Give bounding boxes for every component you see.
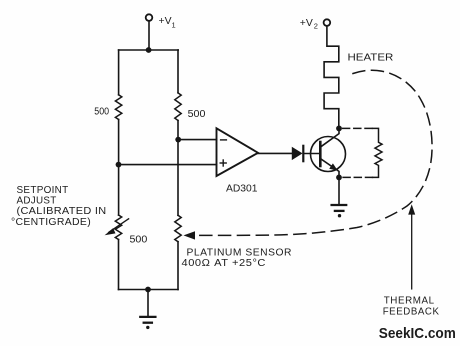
resistor load right <box>373 128 383 177</box>
ground emitter <box>332 205 347 217</box>
node top junction <box>146 47 152 53</box>
node plus-input junction <box>116 162 122 168</box>
wire to op-amp plus input <box>119 164 217 166</box>
svg-text:400Ω AT +25°C: 400Ω AT +25°C <box>182 258 267 269</box>
wire bottom rail <box>119 289 179 291</box>
svg-text:HEATER: HEATER <box>348 52 394 63</box>
svg-text:FEEDBACK: FEEDBACK <box>383 306 440 317</box>
wire left branch middle <box>118 120 120 216</box>
wire V1 stem <box>148 21 150 50</box>
label setpoint adjust <box>11 185 107 228</box>
op-amp minus sign <box>221 139 227 141</box>
potentiometer 500 setpoint <box>115 215 121 240</box>
svg-text:PLATINUM SENSOR: PLATINUM SENSOR <box>187 248 293 259</box>
wire left branch upper <box>118 50 120 95</box>
label +V2 <box>300 18 318 30</box>
node emitter junction <box>336 175 342 181</box>
wire right branch lower <box>177 242 179 290</box>
svg-text:+V: +V <box>300 18 313 29</box>
svg-text:500: 500 <box>188 109 206 120</box>
heater element <box>324 26 339 127</box>
svg-text:500: 500 <box>130 235 148 246</box>
svg-text:ADJUST: ADJUST <box>17 196 57 207</box>
label platinum sensor <box>182 248 293 270</box>
wire to op-amp minus input <box>178 139 216 141</box>
op-amp plus sign <box>220 160 226 166</box>
svg-text:2: 2 <box>314 22 318 31</box>
label thermal feedback <box>383 296 440 318</box>
node bottom junction <box>145 287 151 293</box>
label +V1 <box>159 16 176 30</box>
svg-text:+V: +V <box>159 16 172 27</box>
terminal +V2 <box>324 19 331 26</box>
thermal feedback dashed curve <box>197 70 432 235</box>
node collector junction <box>336 125 342 131</box>
wire emitter to ground <box>338 177 340 204</box>
resistor R2 500 right <box>175 93 181 121</box>
wire right branch middle <box>177 121 179 216</box>
node minus-input junction <box>175 137 181 143</box>
arrowhead feedback to sensor <box>184 231 196 239</box>
wire dashed collector to load resistor <box>343 127 373 129</box>
potentiometer wiper arrow <box>105 219 129 235</box>
svg-text:SeekIC.com: SeekIC.com <box>379 325 456 342</box>
wire left branch lower <box>118 240 120 290</box>
wire top rail <box>119 49 179 51</box>
svg-text:THERMAL: THERMAL <box>384 296 435 307</box>
svg-text:1: 1 <box>172 21 176 30</box>
diode D1 <box>292 146 303 161</box>
terminal +V1 <box>146 14 153 21</box>
svg-text:AD301: AD301 <box>226 183 258 194</box>
svg-text:SETPOINT: SETPOINT <box>17 185 69 196</box>
svg-text:°CENTIGRADE): °CENTIGRADE) <box>11 217 91 228</box>
wire diode to base <box>304 153 319 155</box>
wire ground stem bottom <box>147 290 149 317</box>
resistor R1 500 left <box>115 95 121 120</box>
ground bottom <box>140 317 155 329</box>
svg-text:(CALIBRATED IN: (CALIBRATED IN <box>17 206 107 217</box>
wire dashed load resistor to emitter <box>343 176 373 178</box>
wire op-amp output <box>258 152 292 154</box>
op-amp U1 AD301 <box>217 128 259 176</box>
svg-text:500: 500 <box>94 107 109 118</box>
wire right branch upper <box>177 50 179 93</box>
resistor platinum sensor <box>175 215 181 241</box>
transistor Q1 <box>311 128 346 177</box>
arrow thermal feedback pointer <box>408 204 415 289</box>
